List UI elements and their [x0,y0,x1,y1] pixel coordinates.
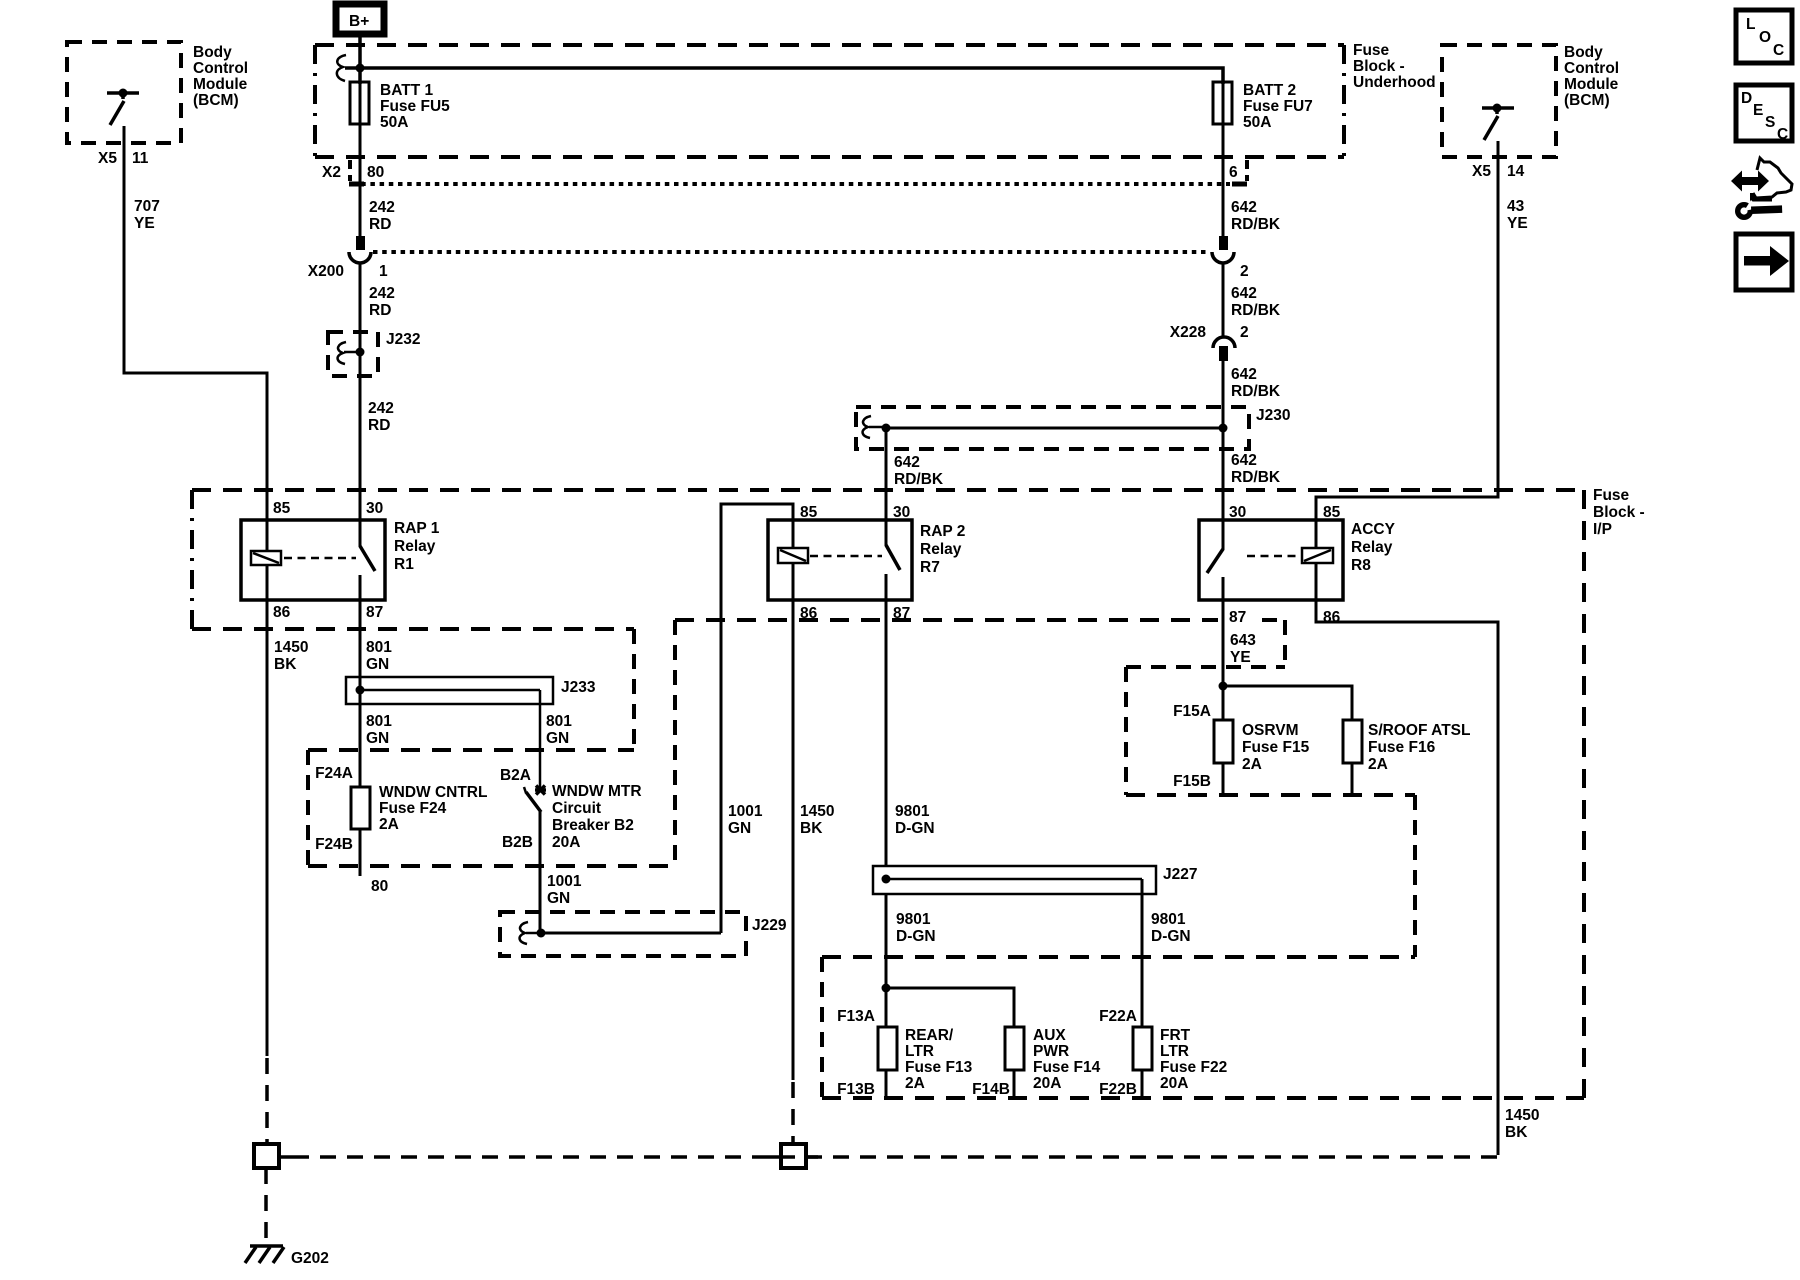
wire 707 YE from BCM X5-11 [124,126,267,520]
fuse F16 S/ROOF ATSL [1343,720,1470,795]
svg-text:F15B: F15B [1173,773,1211,790]
svg-text:GN: GN [546,730,569,747]
svg-text:9801: 9801 [1151,911,1186,928]
body control module BCM (right) enclosure [1442,44,1619,157]
svg-text:50A: 50A [380,114,408,131]
svg-text:242: 242 [369,199,395,216]
svg-text:GN: GN [366,656,389,673]
svg-text:RD/BK: RD/BK [1231,216,1281,233]
svg-text:B+: B+ [349,13,369,30]
svg-text:RD: RD [369,302,391,319]
svg-text:X2: X2 [322,164,341,181]
svg-text:F24B: F24B [315,836,353,853]
svg-text:85: 85 [800,504,818,521]
pin X5 14 label [1472,163,1525,180]
svg-text:Fuse F22: Fuse F22 [1160,1059,1227,1076]
ground distribution block (left) [254,1144,293,1168]
svg-text:14: 14 [1507,163,1525,180]
svg-text:642: 642 [1231,285,1257,302]
svg-text:642: 642 [1231,199,1257,216]
svg-text:RD: RD [368,417,390,434]
wire 801 GN J233 right branch [540,690,572,790]
svg-text:F22A: F22A [1099,1008,1137,1025]
fuse FU5 BATT 1 [350,82,450,160]
wire 642 RD/BK label right of J230 [1231,452,1281,486]
svg-text:87: 87 [366,604,383,621]
relay R8 coil-contact dashed link [1247,555,1299,558]
svg-text:C: C [1777,126,1788,143]
wire 1450 BK from relay R1 pin 86 [267,600,308,1056]
fuse F14 AUX PWR [972,1027,1100,1098]
svg-text:43: 43 [1507,198,1525,215]
svg-text:R1: R1 [394,556,414,573]
icon double arrow [1731,171,1769,192]
connector X2 pin 80 bracket [322,160,384,184]
svg-text:Circuit: Circuit [552,800,601,817]
svg-text:RD/BK: RD/BK [1231,383,1281,400]
wire from relay R8 pin 86 [1316,600,1498,1155]
svg-text:242: 242 [368,400,394,417]
svg-text:2A: 2A [1368,756,1388,773]
svg-text:642: 642 [1231,452,1257,469]
svg-text:242: 242 [369,285,395,302]
wire 43 YE from BCM X5-14 to ACCY relay coil [1316,141,1528,520]
wire 801 GN J233 left branch label [366,713,392,747]
svg-text:80: 80 [367,164,384,181]
wire 9801 D-GN J227 left branch [886,894,936,1027]
svg-text:2A: 2A [379,816,399,833]
junction dot F13A node [882,984,891,993]
fuse F22 FRT LTR [1099,1008,1227,1098]
svg-text:85: 85 [273,500,291,517]
connector X200 dotted interface line [373,250,1210,254]
splice pack J227 [873,866,1197,894]
circuit breaker B2 WNDW MTR [500,767,642,851]
svg-text:6: 6 [1229,164,1238,181]
fuse F24 WNDW CNTRL [315,765,487,853]
svg-text:BK: BK [1505,1124,1528,1141]
svg-text:F13A: F13A [837,1008,875,1025]
svg-text:R8: R8 [1351,557,1371,574]
svg-text:LTR: LTR [1160,1043,1189,1060]
pin X5 11 label [98,150,149,167]
svg-text:WNDW MTR: WNDW MTR [552,783,642,800]
svg-text:AUX: AUX [1033,1027,1066,1044]
svg-text:87: 87 [893,605,910,622]
svg-text:BATT 2: BATT 2 [1243,82,1296,99]
fuse F13 REAR/LTR [837,1008,972,1098]
svg-text:50A: 50A [1243,114,1271,131]
svg-text:(BCM): (BCM) [1564,92,1610,109]
svg-text:1001: 1001 [728,803,763,820]
svg-text:WNDW CNTRL: WNDW CNTRL [379,784,487,801]
svg-text:20A: 20A [1033,1075,1061,1092]
svg-text:F22B: F22B [1099,1081,1137,1098]
svg-text:YE: YE [134,215,155,232]
svg-text:Fuse FU5: Fuse FU5 [380,98,450,115]
svg-text:BATT 1: BATT 1 [380,82,433,99]
wire 642 RD/BK X228 to J230 [1223,361,1281,520]
svg-text:9801: 9801 [895,803,930,820]
svg-text:S/ROOF ATSL: S/ROOF ATSL [1368,722,1470,739]
icon wrench [1735,200,1782,220]
svg-text:RD/BK: RD/BK [1231,302,1281,319]
svg-text:80: 80 [371,878,388,895]
svg-text:11: 11 [132,150,149,167]
svg-text:2A: 2A [905,1075,925,1092]
icon vehicle outline [1752,158,1792,200]
dashed ground lead from R7 1450 BK [791,1082,795,1142]
svg-text:642: 642 [1231,366,1257,383]
svg-text:D-GN: D-GN [895,820,935,837]
wire 642 RD/BK fuse FU7 to inline connector [1223,160,1281,237]
svg-text:O: O [1759,29,1771,46]
wire 9801 D-GN J227 right branch [1142,879,1191,1027]
wire 642 RD/BK J230 to RAP2 relay pin 30 [886,428,944,520]
switch inside left BCM [107,89,139,126]
svg-text:Relay: Relay [1351,539,1393,556]
splice hook on feed node [337,55,346,81]
ground G202 [245,1246,329,1267]
svg-text:Relay: Relay [920,541,962,558]
fuse block underhood enclosure [315,42,1436,157]
svg-text:Control: Control [1564,60,1619,77]
svg-text:D-GN: D-GN [1151,928,1191,945]
svg-text:J233: J233 [561,679,596,696]
svg-text:ACCY: ACCY [1351,521,1396,538]
svg-text:801: 801 [366,639,392,656]
svg-text:Control: Control [193,60,248,77]
svg-text:F13B: F13B [837,1081,875,1098]
svg-text:BK: BK [274,656,297,673]
svg-text:1450: 1450 [800,803,834,820]
svg-text:30: 30 [366,500,383,517]
body control module BCM (left) enclosure [67,42,248,143]
svg-text:F14B: F14B [972,1081,1010,1098]
fuse block I/P enclosure outline [192,487,1645,1098]
relay R7 coil [778,520,808,600]
inline connector X200 pin 1 [308,236,388,280]
svg-text:F24A: F24A [315,765,353,782]
svg-text:X5: X5 [1472,163,1491,180]
ground distribution block (right) [768,1144,818,1168]
svg-text:X200: X200 [308,263,344,280]
svg-text:Fuse F16: Fuse F16 [1368,739,1436,756]
wire 242 RD J232 to RAP1 relay [368,400,394,434]
splice J232 [328,331,420,376]
svg-text:L: L [1746,16,1755,33]
svg-text:86: 86 [800,605,818,622]
svg-text:Underhood: Underhood [1353,74,1436,91]
wire 9801 D-GN from relay R7 pin 87 [886,600,935,866]
splice J230 [856,407,1290,449]
svg-text:801: 801 [366,713,392,730]
svg-text:1001: 1001 [547,873,582,890]
wire 642 RD/BK connector to X228 [1223,263,1281,336]
svg-text:85: 85 [1323,504,1341,521]
svg-text:86: 86 [273,604,291,621]
svg-text:2: 2 [1240,324,1249,341]
svg-text:BK: BK [800,820,823,837]
svg-text:Block -: Block - [1353,58,1405,75]
svg-text:LTR: LTR [905,1043,934,1060]
svg-text:707: 707 [134,198,160,215]
svg-text:J227: J227 [1163,866,1197,883]
wire 1450 BK label right side [1505,1107,1539,1141]
svg-text:D-GN: D-GN [896,928,936,945]
svg-text:Fuse F24: Fuse F24 [379,800,447,817]
svg-text:RD/BK: RD/BK [1231,469,1281,486]
relay R8 pin labels [1229,504,1341,626]
svg-text:I/P: I/P [1593,521,1612,538]
svg-text:Fuse F13: Fuse F13 [905,1059,973,1076]
svg-text:1450: 1450 [1505,1107,1539,1124]
svg-text:Fuse: Fuse [1353,42,1390,59]
relay R1 RAP 1 [241,520,440,600]
svg-text:Module: Module [1564,76,1619,93]
relay R7 RAP 2 [768,520,965,600]
dashed ground bus line [293,1155,1497,1159]
svg-text:E: E [1753,102,1763,119]
svg-text:Fuse F14: Fuse F14 [1033,1059,1101,1076]
svg-text:GN: GN [366,730,389,747]
dashed ground lead from 1450 BK [265,1058,269,1142]
svg-text:9801: 9801 [896,911,931,928]
svg-text:F15A: F15A [1173,703,1211,720]
svg-text:RAP 2: RAP 2 [920,523,965,540]
relay R7 contact arm [886,520,900,600]
svg-text:RAP 1: RAP 1 [394,520,440,537]
svg-text:2: 2 [1240,263,1249,280]
svg-text:X5: X5 [98,150,117,167]
svg-text:801: 801 [546,713,572,730]
svg-text:J232: J232 [386,331,420,348]
fuse FU7 BATT 2 [1213,82,1313,160]
svg-text:GN: GN [728,820,751,837]
relay R1 coil-contact dashed link [284,557,356,560]
icon DESC button [1736,85,1792,143]
wire main feed bus to BATT 2 fuse [345,68,1223,84]
svg-text:1: 1 [379,263,388,280]
svg-text:R7: R7 [920,559,940,576]
svg-text:RD: RD [369,216,391,233]
inline connector X228 pin 2 [1170,324,1249,361]
relay R7 coil-contact dashed link [810,555,882,558]
connector X2 pin 6 bracket [1229,160,1247,184]
svg-text:Block -: Block - [1593,504,1645,521]
wire 242 RD fuse FU5 to X200 [360,160,395,237]
switch inside right BCM [1482,104,1514,141]
svg-text:642: 642 [894,454,920,471]
relay R1 coil [251,520,281,600]
svg-text:Module: Module [193,76,248,93]
svg-text:20A: 20A [552,834,580,851]
wire stub to pin 80 [360,829,388,895]
svg-text:YE: YE [1507,215,1528,232]
inline connector right pin 2 [1212,236,1249,280]
junction dot F15A node [1219,682,1228,691]
relay R1 pin labels [273,500,383,621]
svg-text:B2A: B2A [500,767,531,784]
svg-text:Fuse F15: Fuse F15 [1242,739,1310,756]
svg-text:30: 30 [1229,504,1246,521]
relay R8 contact arm [1207,520,1223,600]
svg-text:REAR/: REAR/ [905,1027,954,1044]
svg-text:RD/BK: RD/BK [894,471,944,488]
svg-text:Body: Body [193,44,232,61]
connector X2 dotted interface line [352,182,1230,186]
svg-text:YE: YE [1230,649,1251,666]
svg-text:Body: Body [1564,44,1603,61]
relay R8 ACCY [1199,520,1396,600]
svg-text:OSRVM: OSRVM [1242,722,1299,739]
svg-text:B2B: B2B [502,834,533,851]
dashed lead to G202 [264,1168,268,1243]
svg-text:J229: J229 [752,917,787,934]
svg-text:20A: 20A [1160,1075,1188,1092]
svg-text:J230: J230 [1256,407,1290,424]
svg-text:C: C [1773,42,1784,59]
wire 242 RD X200 to J232 [360,263,395,520]
wire branch to fuse F16 [1223,686,1352,720]
svg-text:G202: G202 [291,1250,329,1267]
svg-text:1450: 1450 [274,639,308,656]
svg-text:643: 643 [1230,632,1256,649]
splice J229 [500,912,787,956]
svg-text:X228: X228 [1170,324,1207,341]
wire 1001 GN J229 to relay R7 coil [721,504,793,933]
svg-text:87: 87 [1229,609,1246,626]
wire 1450 BK from relay R7 pin 86 [793,600,834,1080]
svg-text:(BCM): (BCM) [193,92,239,109]
icon LOC button [1736,10,1792,63]
wire from B+ down to fuse FU5 [358,34,362,84]
wire 801 GN from relay R1 pin 87 [360,600,392,787]
svg-text:D: D [1741,90,1752,107]
splice pack J233 [346,677,596,704]
svg-text:S: S [1765,114,1775,131]
relay R7 pin labels [800,504,910,622]
svg-text:GN: GN [547,890,570,907]
power symbol B+ [336,4,384,34]
svg-text:Fuse FU7: Fuse FU7 [1243,98,1313,115]
svg-text:Fuse: Fuse [1593,487,1630,504]
wire 643 YE from relay R8 pin 87 [1223,600,1256,720]
wire branch to fuse F14 [886,988,1014,1027]
svg-text:PWR: PWR [1033,1043,1069,1060]
fuse F15 OSRVM [1173,703,1309,795]
icon forward arrow button [1736,234,1792,290]
svg-text:FRT: FRT [1160,1027,1191,1044]
svg-text:Breaker B2: Breaker B2 [552,817,634,834]
svg-text:Relay: Relay [394,538,436,555]
svg-text:30: 30 [893,504,910,521]
relay R8 coil [1302,520,1333,600]
relay R1 contact arm [360,520,375,600]
junction dot at B+ feed node [356,64,365,73]
svg-text:2A: 2A [1242,756,1262,773]
wire 1001 GN from breaker B2B to J229 [540,811,582,930]
